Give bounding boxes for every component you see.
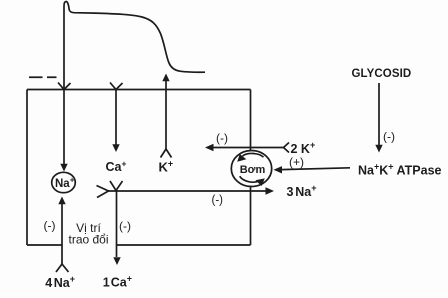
pump bottom rotation arc [240, 176, 259, 182]
2K+ inflow arrow: wire [205, 143, 289, 153]
svg-text:(-): (-) [44, 219, 56, 233]
pump top rotation arc [243, 153, 264, 157]
solid arrowhead pointing left [205, 144, 214, 151]
svg-text:(-): (-) [216, 131, 228, 145]
tail fletching [161, 149, 172, 158]
solid arrowhead below Na circle [58, 197, 65, 205]
tail fletching at left [97, 186, 109, 198]
tail fletching [284, 143, 290, 153]
svg-text:Na+K+ ATPase: Na+K+ ATPase [358, 162, 442, 178]
svg-text:GLYCOSID: GLYCOSID [352, 68, 412, 80]
svg-text:(-): (-) [119, 219, 131, 233]
Na node circle [52, 172, 76, 192]
open V arrowhead at membrane [58, 83, 71, 90]
exchange horizontal line to 3Na+: wire [97, 186, 275, 198]
svg-text:(+): (+) [289, 155, 304, 169]
cell membrane box: bottom edge left segment [27, 244, 62, 246]
Na influx arrow: wire [58, 77, 71, 172]
solid arrowhead above Na circle [60, 164, 67, 172]
svg-text:trao đổi: trao đổi [68, 233, 108, 247]
svg-text:Bơm: Bơm [240, 164, 266, 176]
Ca outflow arrow: wire [113, 191, 120, 266]
action potential dashed baseline [29, 76, 57, 78]
pump circle [231, 151, 271, 187]
open V arrowhead above exchange line [110, 181, 123, 191]
glycoside inhibition arrow: wire [375, 83, 382, 153]
label Vi tri trao doi [63, 221, 114, 247]
cell membrane box: right edge lower segment [250, 187, 252, 246]
svg-text:(-): (-) [212, 195, 224, 207]
svg-text:(-): (-) [383, 130, 395, 144]
solid arrowhead above Ca+ label [112, 144, 119, 152]
solid arrowhead pointing up above membrane [162, 74, 169, 82]
solid arrowhead pointing right [266, 187, 275, 194]
4 Na+ exchange inflow arrow: wire [56, 197, 69, 273]
Ca influx arrow: wire [110, 83, 123, 153]
cell membrane box: left edge [26, 90, 28, 246]
K efflux arrow: wire [161, 74, 172, 158]
cell membrane box: bottom edge right segment [117, 244, 251, 246]
ATPase to pump arrow: wire [274, 166, 351, 173]
action potential curve [64, 2, 205, 78]
solid arrowhead pointing down [113, 257, 120, 265]
solid arrowhead pointing down [375, 145, 382, 153]
open V arrowhead at membrane [110, 83, 123, 90]
cell membrane box: right edge upper segment [250, 90, 252, 151]
solid arrowhead pointing left at pump [274, 166, 283, 173]
tail fletching [56, 264, 69, 272]
cell membrane box: top edge [27, 89, 251, 91]
